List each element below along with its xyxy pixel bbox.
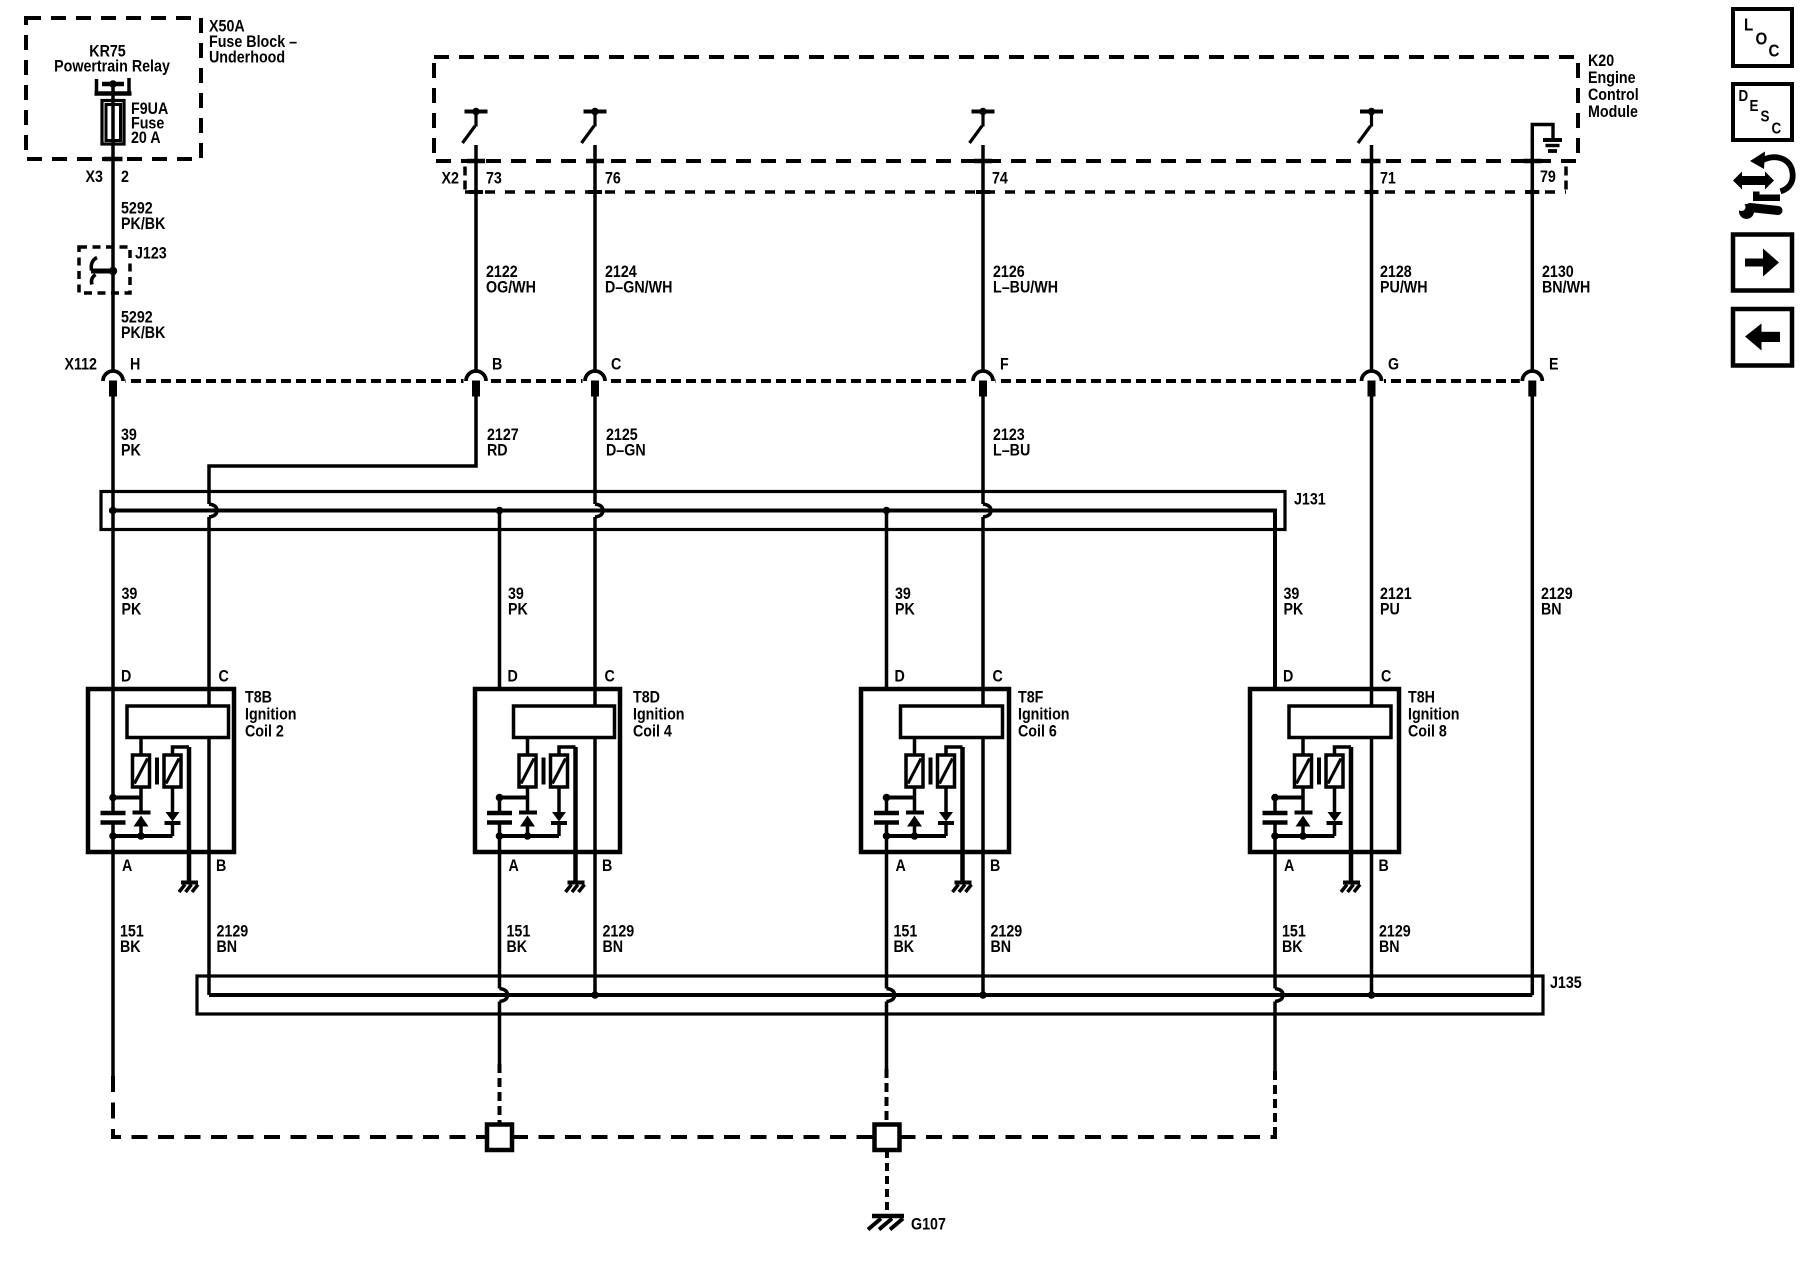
ground G107 <box>872 1214 904 1219</box>
wire 2130 BN/WH pin 79 to X112 E <box>1531 137 1535 372</box>
svg-text:PU: PU <box>1380 600 1400 618</box>
splice square S1 on ground chain <box>487 1125 512 1151</box>
wire ground chain splice1 to splice2 (dashed) <box>512 1135 875 1139</box>
svg-text:Coil 6: Coil 6 <box>1018 722 1057 740</box>
node coil T8D ground rail <box>500 834 560 838</box>
wire 39 PK X112 H down through J131 to coil2 node <box>111 396 115 798</box>
capacitor T8B <box>111 798 115 812</box>
wire spark output T8D <box>573 747 578 881</box>
svg-text:B: B <box>602 857 612 875</box>
svg-text:Ignition: Ignition <box>633 705 685 723</box>
wire coil6 pin A dashed drop <box>885 1069 889 1125</box>
svg-text:L: L <box>1744 14 1753 35</box>
node coil T8F ground rail <box>887 834 947 838</box>
svg-text:PK: PK <box>1284 600 1304 618</box>
icon box DESC <box>1733 84 1792 140</box>
wire spark output T8B <box>187 747 192 881</box>
connector X112 pin G <box>1359 374 1384 387</box>
svg-text:BK: BK <box>507 938 528 956</box>
node junction J135 coil8 B <box>1368 991 1376 999</box>
node pin tick at X2 row <box>469 190 483 194</box>
wire 151 BK coil4 pin A down (hops J135) <box>498 852 502 989</box>
ECM output driver 1 (switch symbol) <box>465 110 488 114</box>
diode D1 T8D (zener) <box>519 811 537 815</box>
svg-text:T8B: T8B <box>245 688 272 706</box>
diode D2 T8B <box>171 787 175 812</box>
icon data link double arrow <box>1733 172 1774 190</box>
node junction J135 coil6 B <box>979 991 987 999</box>
connector X112 pin B <box>464 374 489 387</box>
primary winding T8H <box>1295 755 1312 787</box>
svg-text:C: C <box>993 667 1003 685</box>
wire spark output T8H <box>1349 747 1354 881</box>
svg-text:PK: PK <box>895 600 915 618</box>
connector X2 dotted line <box>465 190 1566 194</box>
wire G107 dashed drop <box>885 1150 889 1214</box>
svg-text:C: C <box>1772 121 1782 138</box>
connector X2 left boundary mark <box>463 167 467 191</box>
svg-text:Coil 8: Coil 8 <box>1408 722 1447 740</box>
node coil T8H primary low side <box>1275 796 1303 800</box>
wire relay to fuse <box>111 84 115 101</box>
wire 39 PK J131 to coil6 pin D <box>885 511 889 690</box>
svg-text:74: 74 <box>992 169 1008 187</box>
splice pack J135 outline <box>197 976 1543 1014</box>
svg-text:BN: BN <box>1379 938 1400 956</box>
wire 2124 D-GN/WH pin 76 to X112 C <box>593 145 597 372</box>
connector header inside T8F <box>901 706 1003 738</box>
wire T8F header to primary winding <box>913 738 917 756</box>
svg-text:BN: BN <box>991 938 1012 956</box>
wire T8B header to primary winding <box>139 738 143 756</box>
svg-text:Powertrain Relay: Powertrain Relay <box>54 57 170 75</box>
wire 2129 BN X112 E to J135 <box>1531 396 1535 995</box>
connector X112 pin F <box>971 374 996 387</box>
wire secondary top jog T8F <box>946 747 963 755</box>
svg-text:Ignition: Ignition <box>1018 705 1070 723</box>
svg-text:OG/WH: OG/WH <box>486 278 536 296</box>
wire secondary top jog T8H <box>1335 747 1352 755</box>
core T8F <box>929 758 933 785</box>
wire coil8 pin A dashed drop <box>1273 1071 1277 1137</box>
wire 2126 L-BU/WH pin 74 to X112 F <box>981 145 985 372</box>
connector header inside T8D <box>514 706 615 738</box>
node pin tick at X2 row <box>1365 190 1379 194</box>
ECM internal ground at pin 79 <box>1532 125 1553 139</box>
svg-text:Coil 4: Coil 4 <box>633 722 672 740</box>
svg-text:D: D <box>1283 667 1293 685</box>
icon box back arrow <box>1733 309 1792 366</box>
wire pin B T8B <box>207 738 211 996</box>
svg-text:O: O <box>1756 28 1768 49</box>
svg-text:A: A <box>122 857 132 875</box>
primary winding T8F <box>906 755 923 787</box>
connector header inside T8H <box>1289 706 1391 738</box>
wire T8H header to primary winding <box>1301 738 1305 756</box>
node junction J131 coil4 D <box>496 507 504 515</box>
icon wrench <box>1739 204 1754 219</box>
svg-text:BN: BN <box>217 938 238 956</box>
ignition coil T8H box <box>1250 689 1399 852</box>
svg-text:D–GN: D–GN <box>606 441 646 459</box>
wire T8D header to primary winding <box>526 738 530 756</box>
svg-text:D–GN/WH: D–GN/WH <box>605 278 672 296</box>
svg-text:A: A <box>896 857 906 875</box>
node pin tick at ECM edge <box>1523 159 1541 164</box>
svg-text:B: B <box>1379 857 1389 875</box>
wire 2128 PU/WH pin 71 to X112 G <box>1370 145 1374 372</box>
ECM output driver 3 (switch symbol) <box>972 110 995 114</box>
splice symbol inside J123 <box>91 269 115 274</box>
secondary winding T8H <box>1326 755 1343 787</box>
svg-text:A: A <box>509 857 519 875</box>
wire 2123 L-BU X112 F to coil6 pin C <box>981 396 985 504</box>
wire 2127 RD X112 B jog to coil2 pin C <box>209 396 476 504</box>
svg-text:J131: J131 <box>1294 490 1326 508</box>
relay KR75 contact <box>95 79 99 94</box>
core T8H <box>1317 758 1321 785</box>
svg-text:B: B <box>216 857 226 875</box>
wire 2121 PU X112 G to coil8 pin C <box>1370 396 1374 706</box>
wire pin A T8F <box>885 836 889 852</box>
diode D1 T8B (zener) <box>133 811 151 815</box>
icon curved harness arrow <box>1763 157 1793 191</box>
svg-text:E: E <box>1750 98 1759 115</box>
node junction J131 coil6 D <box>883 507 891 515</box>
svg-text:T8H: T8H <box>1408 688 1435 706</box>
svg-text:X3: X3 <box>86 168 104 186</box>
primary winding T8B <box>133 755 150 787</box>
splice square S2 on ground chain <box>875 1125 900 1151</box>
wire 151 BK coil2 pin A down <box>111 852 115 1076</box>
svg-text:71: 71 <box>1380 169 1396 187</box>
diode D2 T8F <box>944 787 948 812</box>
ignition coil T8D box <box>475 689 620 852</box>
wire pin A T8B <box>111 836 115 852</box>
wire pin A T8H <box>1273 836 1277 852</box>
svg-text:D: D <box>1739 88 1749 105</box>
diode D2 T8H <box>1333 787 1337 812</box>
svg-text:L–BU/WH: L–BU/WH <box>993 278 1058 296</box>
svg-text:G: G <box>1388 355 1399 373</box>
svg-text:T8D: T8D <box>633 688 660 706</box>
node junction J135 coil4 B <box>591 991 599 999</box>
svg-text:C: C <box>219 667 229 685</box>
svg-text:J135: J135 <box>1550 974 1582 992</box>
svg-text:2: 2 <box>121 168 129 186</box>
svg-text:Engine: Engine <box>1588 69 1636 87</box>
ignition coil T8B box <box>88 689 234 852</box>
node tick X3 pin 2 at box edge <box>104 157 123 162</box>
svg-text:H: H <box>130 355 140 373</box>
secondary winding T8B <box>164 755 181 787</box>
wire secondary top jog T8D <box>559 747 576 755</box>
svg-text:J123: J123 <box>135 244 167 262</box>
connector header inside T8B <box>127 706 229 738</box>
wire pin B T8F <box>981 738 985 996</box>
svg-text:20 A: 20 A <box>131 129 161 147</box>
spark plug gap ground T8D <box>568 881 585 885</box>
node junction J131 with H wire <box>109 507 117 515</box>
svg-text:A: A <box>1284 857 1294 875</box>
svg-text:E: E <box>1549 355 1559 373</box>
connector J123 dashed box <box>79 247 130 293</box>
svg-text:F: F <box>1000 355 1009 373</box>
svg-text:X2: X2 <box>442 169 460 187</box>
svg-text:PK: PK <box>121 441 141 459</box>
connector X2 right boundary mark <box>1564 167 1568 191</box>
svg-text:L–BU: L–BU <box>993 441 1030 459</box>
svg-text:PK/BK: PK/BK <box>121 324 166 342</box>
svg-text:C: C <box>1769 40 1780 61</box>
icon box forward arrow <box>1733 235 1792 291</box>
fuse F9UA 20A <box>102 101 124 145</box>
svg-text:BK: BK <box>120 938 141 956</box>
svg-text:Coil 2: Coil 2 <box>245 722 284 740</box>
wire ground chain from coil2 pin A (dashed) <box>113 1076 487 1137</box>
node pin tick at ECM edge <box>586 159 604 164</box>
node pin tick at ECM edge <box>467 159 485 164</box>
svg-text:C: C <box>611 355 621 373</box>
node pin tick at X2 row <box>588 190 602 194</box>
diode D2 T8D <box>557 787 561 812</box>
connector X112 pin E <box>1520 374 1545 387</box>
node coil T8D primary low side <box>500 796 528 800</box>
core T8D <box>542 758 546 785</box>
svg-text:BK: BK <box>894 938 915 956</box>
svg-text:BN: BN <box>1541 600 1562 618</box>
spark plug gap ground T8H <box>1343 881 1360 885</box>
svg-text:D: D <box>895 667 905 685</box>
diode D1 T8H (zener) <box>1295 811 1313 815</box>
wire pin B T8D <box>593 738 597 996</box>
splice pack J135 bus wire 2129 BN <box>209 993 1532 997</box>
svg-text:BN: BN <box>603 938 624 956</box>
svg-text:B: B <box>990 857 1000 875</box>
svg-text:73: 73 <box>486 169 502 187</box>
svg-text:C: C <box>1381 667 1391 685</box>
spark plug gap ground T8F <box>955 881 972 885</box>
connector X112 pin C <box>583 374 608 387</box>
svg-text:D: D <box>508 667 518 685</box>
fuse block X50A dashed box <box>26 18 201 159</box>
svg-text:C: C <box>605 667 615 685</box>
core T8B <box>155 758 159 785</box>
ECM output driver 4 (switch symbol) <box>1360 110 1383 114</box>
svg-text:G107: G107 <box>911 1215 946 1233</box>
splice pack J131 bus wire 39 PK <box>109 511 1275 690</box>
svg-text:S: S <box>1761 109 1770 126</box>
wire 151 BK coil6 pin A down (hops J135) <box>885 852 889 989</box>
svg-text:BN/WH: BN/WH <box>1542 278 1590 296</box>
svg-text:T8F: T8F <box>1018 688 1044 706</box>
capacitor T8H <box>1273 798 1277 812</box>
svg-text:BK: BK <box>1282 938 1303 956</box>
svg-text:Underhood: Underhood <box>209 48 285 66</box>
wire X3-2 fuse to X112 pin H <box>111 101 115 372</box>
node coil T8H ground rail <box>1275 834 1335 838</box>
node pin tick at ECM edge <box>1363 159 1381 164</box>
svg-text:RD: RD <box>487 441 508 459</box>
node pin tick at X2 row <box>976 190 990 194</box>
svg-text:Ignition: Ignition <box>245 705 297 723</box>
svg-text:PK: PK <box>508 600 528 618</box>
wire 151 BK coil8 pin A down (hops J135) <box>1273 852 1277 989</box>
wire pin A T8D <box>498 836 502 852</box>
primary winding T8D <box>519 755 536 787</box>
svg-text:PK: PK <box>122 600 142 618</box>
svg-text:PU/WH: PU/WH <box>1380 278 1428 296</box>
spark plug gap ground T8B <box>181 881 198 885</box>
wire secondary top jog T8B <box>173 747 190 755</box>
svg-text:PK/BK: PK/BK <box>121 215 166 233</box>
node coil T8B primary low side <box>113 796 141 800</box>
svg-text:Module: Module <box>1588 103 1638 121</box>
svg-text:76: 76 <box>605 169 621 187</box>
splice pack J131 outline <box>101 492 1285 530</box>
secondary winding T8D <box>551 755 568 787</box>
wire 2122 OG/WH pin 73 to X112 B <box>474 145 478 372</box>
wire spark output T8F <box>960 747 965 881</box>
node pin tick at X2 row <box>1525 190 1539 194</box>
secondary winding T8F <box>938 755 955 787</box>
wire 39 PK J131 to coil4 pin D <box>498 511 502 690</box>
wire 2125 D-GN X112 C to coil4 pin C <box>593 396 597 504</box>
ECM K20 dashed box <box>434 57 1578 161</box>
svg-text:K20: K20 <box>1588 52 1614 70</box>
svg-text:Ignition: Ignition <box>1408 705 1460 723</box>
svg-text:B: B <box>492 355 502 373</box>
node pin tick at ECM edge <box>974 159 992 164</box>
diode D1 T8F (zener) <box>906 811 924 815</box>
svg-text:79: 79 <box>1540 168 1556 186</box>
node coil T8B ground rail <box>113 834 173 838</box>
capacitor T8F <box>885 798 889 812</box>
wire coil4 pin A dashed drop <box>498 1064 502 1125</box>
connector X112 dashed line <box>101 379 1544 383</box>
svg-text:D: D <box>121 667 131 685</box>
node coil T8F primary low side <box>887 796 915 800</box>
svg-text:X112: X112 <box>64 355 97 373</box>
ignition coil T8F box <box>861 689 1009 852</box>
connector X112 pin H <box>101 374 126 387</box>
capacitor T8D <box>498 798 502 812</box>
wire ground chain splice2 to coil8 drop (dashed) <box>900 1135 1278 1139</box>
ECM output driver 2 (switch symbol) <box>584 110 607 114</box>
wire pin B T8H <box>1370 738 1374 996</box>
icon box LOC <box>1733 9 1792 66</box>
svg-text:Control: Control <box>1588 86 1639 104</box>
